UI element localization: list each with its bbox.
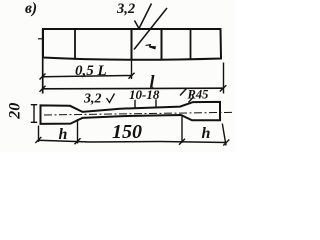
svg-text:h: h <box>202 125 211 142</box>
weld leader slash <box>134 8 167 50</box>
plate band outline <box>43 29 221 60</box>
tick l right <box>220 85 227 91</box>
dim line 0.5L <box>43 76 132 77</box>
tick 0.5L left <box>40 74 46 80</box>
dim bar 20 <box>33 105 35 123</box>
leader tick left of 10-18 <box>134 100 136 109</box>
divider 2 (weld left) <box>131 29 133 60</box>
tick bottom right end <box>223 140 229 146</box>
specimen outline (dog-bone) <box>41 102 221 124</box>
leader tick right of 10-18 <box>155 99 157 107</box>
tick bottom h1 <box>75 138 81 144</box>
dim bar 20 bottom serif <box>31 121 37 123</box>
right extension for l <box>223 63 225 94</box>
tick l left <box>40 86 46 92</box>
slash before R45 <box>180 89 187 96</box>
tick 0.5L right <box>129 73 135 79</box>
svg-text:3,2: 3,2 <box>116 1 135 17</box>
roughness check (specimen) <box>107 94 115 103</box>
bottom dim line <box>38 140 227 142</box>
extension right end bottom <box>222 124 226 146</box>
divider 4 <box>190 29 192 60</box>
tick bottom 150 end <box>179 139 185 145</box>
tick bottom left end <box>35 137 41 143</box>
divider 3 (weld right) <box>161 29 163 60</box>
svg-text:10-18: 10-18 <box>129 87 160 102</box>
svg-text:150: 150 <box>112 121 142 143</box>
centerline <box>44 112 234 115</box>
dim line l <box>43 87 224 90</box>
svg-text:3,2: 3,2 <box>83 92 102 107</box>
dim bar 20 top serif <box>31 104 37 106</box>
roughness check mark (top) <box>135 4 152 29</box>
divider 1 <box>74 29 76 60</box>
svg-text:в): в) <box>25 0 37 17</box>
tick on band left edge <box>38 38 43 40</box>
small weld arrow <box>146 45 156 49</box>
svg-text:h: h <box>59 126 68 143</box>
svg-text:R45: R45 <box>187 88 209 102</box>
R45 leader <box>189 98 194 103</box>
extension narrow end bottom <box>181 117 183 143</box>
extension narrow start bottom <box>77 119 79 144</box>
extension line at 0.5L end <box>131 61 133 80</box>
left edge extension <box>42 29 44 94</box>
svg-text:20: 20 <box>7 103 24 120</box>
extension left end bottom <box>38 126 40 143</box>
